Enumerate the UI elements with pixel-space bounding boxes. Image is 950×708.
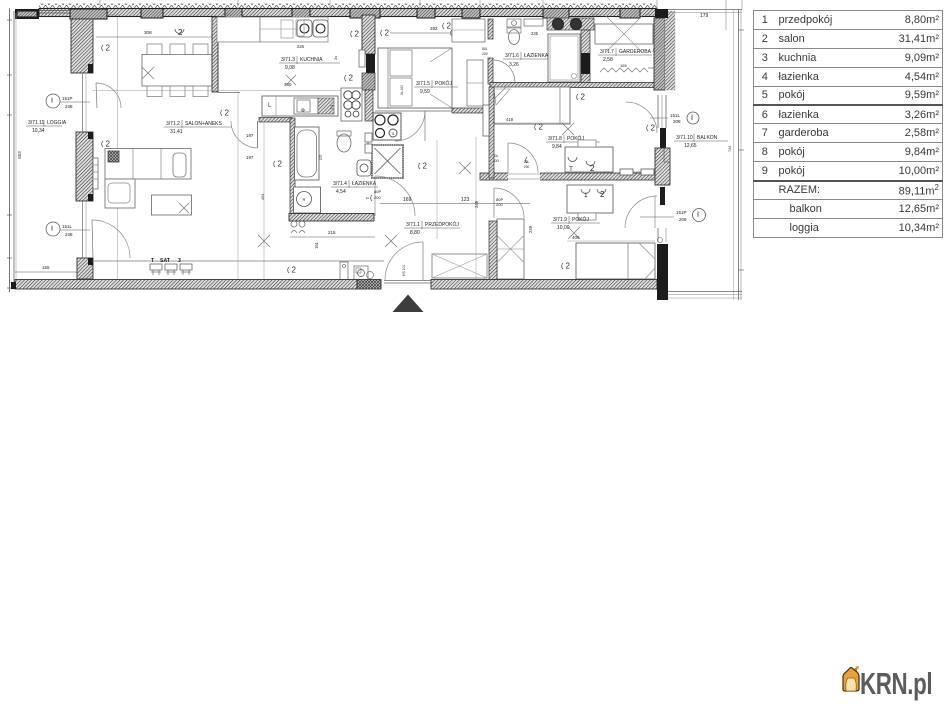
svg-text:SAT: SAT bbox=[160, 258, 171, 264]
svg-text:308: 308 bbox=[144, 30, 152, 35]
svg-text:2: 2 bbox=[106, 140, 111, 149]
svg-text:9,08: 9,08 bbox=[285, 65, 295, 71]
svg-text:208: 208 bbox=[679, 217, 687, 222]
svg-text:123: 123 bbox=[461, 197, 470, 203]
svg-text:Z: Z bbox=[330, 105, 333, 111]
svg-text:226: 226 bbox=[297, 44, 305, 49]
svg-text:3/71.8: 3/71.8 bbox=[548, 136, 562, 142]
svg-text:249: 249 bbox=[474, 200, 479, 208]
svg-text:8,80: 8,80 bbox=[410, 230, 420, 236]
svg-text:10,34: 10,34 bbox=[32, 128, 45, 134]
svg-text:197: 197 bbox=[246, 155, 254, 160]
svg-text:2,58: 2,58 bbox=[603, 57, 613, 63]
svg-text:ŁAZIENKA: ŁAZIENKA bbox=[524, 53, 549, 59]
svg-text:2: 2 bbox=[355, 30, 360, 39]
svg-text:3/71.3: 3/71.3 bbox=[281, 57, 295, 63]
svg-text:2: 2 bbox=[651, 124, 656, 133]
svg-text:200: 200 bbox=[524, 165, 530, 169]
svg-text:226: 226 bbox=[531, 31, 539, 36]
svg-text:3/71.1: 3/71.1 bbox=[406, 222, 420, 228]
svg-text:2: 2 bbox=[423, 162, 428, 171]
svg-text:179: 179 bbox=[700, 13, 709, 19]
svg-text:DB2: DB2 bbox=[50, 225, 54, 231]
svg-text:31,41: 31,41 bbox=[170, 129, 183, 135]
svg-text:2: 2 bbox=[106, 44, 111, 53]
svg-text:215: 215 bbox=[328, 230, 336, 235]
svg-text:2: 2 bbox=[539, 123, 544, 132]
svg-text:292: 292 bbox=[430, 26, 438, 31]
svg-text:208: 208 bbox=[673, 119, 681, 124]
svg-text:3s 160: 3s 160 bbox=[400, 85, 404, 95]
svg-text:9,84: 9,84 bbox=[552, 144, 562, 150]
svg-text:3: 3 bbox=[178, 258, 181, 264]
svg-text:DB2: DB2 bbox=[50, 97, 54, 103]
svg-text:197: 197 bbox=[246, 133, 254, 138]
svg-text:12,65: 12,65 bbox=[684, 143, 697, 149]
svg-text:3/71.5: 3/71.5 bbox=[416, 81, 430, 87]
svg-text:80L: 80L bbox=[524, 160, 530, 164]
svg-text:200: 200 bbox=[374, 195, 381, 200]
svg-text:HS 100: HS 100 bbox=[402, 265, 406, 276]
svg-text:ŁAZIENKA: ŁAZIENKA bbox=[352, 181, 377, 187]
svg-text:151P: 151P bbox=[676, 210, 687, 215]
svg-text:404: 404 bbox=[261, 194, 265, 200]
svg-text:3s: 3s bbox=[333, 56, 338, 60]
svg-text:151P: 151P bbox=[62, 96, 73, 101]
svg-text:406: 406 bbox=[572, 235, 580, 240]
svg-text:3/71.4: 3/71.4 bbox=[333, 181, 347, 187]
svg-text:R: R bbox=[303, 197, 306, 202]
svg-text:2: 2 bbox=[385, 29, 390, 38]
svg-text:2: 2 bbox=[566, 262, 571, 271]
svg-text:653: 653 bbox=[17, 151, 22, 159]
svg-text:T: T bbox=[569, 166, 573, 173]
svg-text:HPb: HPb bbox=[645, 13, 651, 17]
svg-text:3/71.9: 3/71.9 bbox=[553, 217, 567, 223]
svg-text:DB2: DB2 bbox=[696, 211, 700, 217]
svg-text:POKÓJ: POKÓJ bbox=[572, 216, 589, 223]
svg-text:165: 165 bbox=[620, 63, 627, 68]
svg-text:2: 2 bbox=[349, 74, 354, 83]
svg-text:418: 418 bbox=[506, 117, 514, 122]
svg-text:POKÓJ: POKÓJ bbox=[435, 80, 452, 87]
svg-text:3/71.11: 3/71.11 bbox=[28, 120, 45, 126]
svg-text:3,26: 3,26 bbox=[509, 62, 519, 68]
svg-text:SALON+ANEKS: SALON+ANEKS bbox=[185, 121, 222, 127]
svg-text:2: 2 bbox=[225, 109, 230, 118]
svg-text:80L: 80L bbox=[482, 47, 488, 51]
svg-text:249: 249 bbox=[528, 225, 533, 233]
svg-text:2: 2 bbox=[581, 93, 586, 102]
svg-text:HPb/8cm: HPb/8cm bbox=[590, 13, 601, 17]
svg-text:DB2: DB2 bbox=[690, 114, 694, 120]
svg-text:4,54: 4,54 bbox=[336, 189, 346, 195]
svg-text:3/71.6: 3/71.6 bbox=[505, 53, 519, 59]
svg-text:3/71.10: 3/71.10 bbox=[676, 135, 693, 141]
svg-text:744: 744 bbox=[728, 146, 732, 152]
svg-text:170: 170 bbox=[319, 154, 323, 160]
svg-text:80P: 80P bbox=[374, 189, 381, 194]
svg-text:KUCHNIA: KUCHNIA bbox=[300, 57, 323, 63]
svg-text:9,59: 9,59 bbox=[420, 89, 430, 95]
svg-text:2: 2 bbox=[292, 266, 297, 275]
svg-text:PRZEDPOKÓJ: PRZEDPOKÓJ bbox=[425, 221, 459, 228]
svg-text:10,00: 10,00 bbox=[557, 225, 570, 231]
svg-text:HPb/8cm: HPb/8cm bbox=[222, 13, 233, 17]
svg-text:155: 155 bbox=[42, 265, 50, 270]
svg-text:GARDEROBA: GARDEROBA bbox=[619, 49, 652, 55]
svg-text:3/71.2: 3/71.2 bbox=[166, 121, 180, 127]
svg-text:ks: ks bbox=[366, 196, 370, 200]
svg-text:151L: 151L bbox=[62, 224, 73, 229]
svg-text:200: 200 bbox=[482, 52, 488, 56]
svg-text:169: 169 bbox=[403, 197, 412, 203]
svg-text:151: 151 bbox=[314, 241, 319, 249]
svg-text:2: 2 bbox=[447, 22, 452, 31]
svg-text:3/71.7: 3/71.7 bbox=[600, 49, 614, 55]
svg-text:2: 2 bbox=[600, 190, 605, 199]
svg-text:2: 2 bbox=[278, 160, 283, 169]
svg-text:238: 238 bbox=[65, 232, 73, 237]
svg-text:151L: 151L bbox=[670, 113, 681, 118]
svg-text:BALKON: BALKON bbox=[697, 135, 718, 141]
svg-text:LOGGIA: LOGGIA bbox=[47, 120, 67, 126]
svg-text:200: 200 bbox=[496, 202, 503, 207]
svg-text:HB+8Ccm: HB+8Ccm bbox=[108, 13, 120, 17]
svg-text:238: 238 bbox=[65, 104, 73, 109]
